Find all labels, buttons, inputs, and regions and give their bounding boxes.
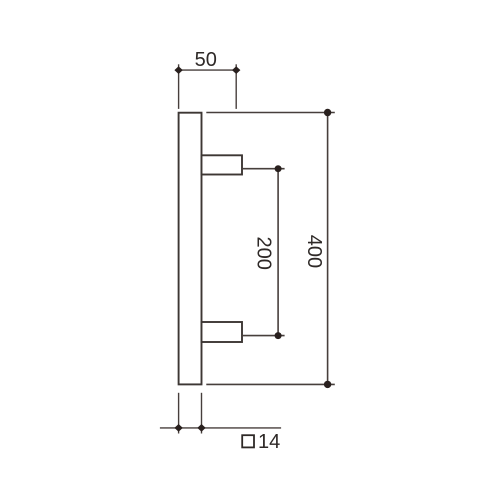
svg-text:200: 200	[253, 237, 275, 270]
svg-text:14: 14	[258, 431, 280, 453]
svg-text:50: 50	[195, 49, 217, 71]
svg-text:400: 400	[303, 235, 325, 268]
